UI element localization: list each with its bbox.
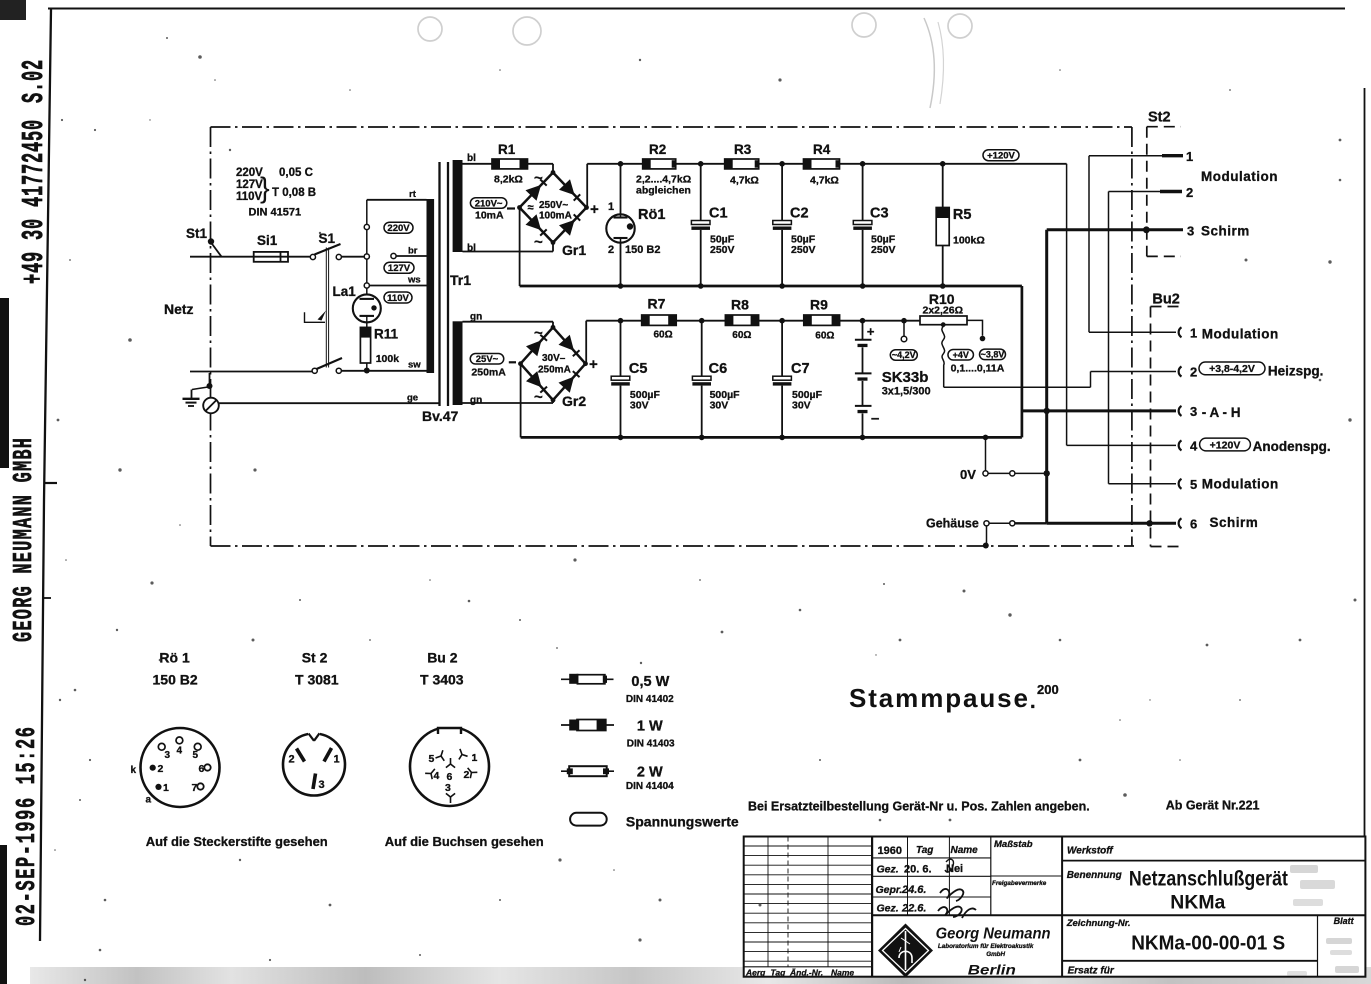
svg-text:30V: 30V	[630, 400, 649, 412]
svg-text:~: ~	[534, 325, 543, 342]
svg-text:Freigabevermerke: Freigabevermerke	[992, 880, 1047, 887]
svg-text:R4: R4	[813, 142, 831, 157]
svg-text:250mA: 250mA	[538, 365, 571, 376]
svg-text:C7: C7	[791, 361, 810, 377]
svg-text:St2: St2	[1148, 110, 1171, 126]
svg-text:0,05 C: 0,05 C	[279, 167, 313, 179]
svg-text:a: a	[146, 795, 152, 806]
svg-text:250V: 250V	[710, 244, 735, 256]
svg-text:2: 2	[464, 769, 470, 781]
svg-text:Blatt: Blatt	[1334, 916, 1355, 926]
svg-text:60Ω: 60Ω	[815, 331, 834, 342]
svg-text:rt: rt	[409, 189, 417, 200]
svg-text:25V~: 25V~	[476, 354, 499, 365]
svg-text:7: 7	[192, 782, 198, 794]
svg-text:100kΩ: 100kΩ	[953, 235, 985, 247]
svg-text:30V: 30V	[710, 400, 729, 412]
svg-text:La1: La1	[333, 284, 357, 299]
svg-text:- A - H: - A - H	[1202, 405, 1241, 420]
svg-text:Schirm: Schirm	[1210, 515, 1259, 530]
svg-text:3: 3	[319, 779, 325, 791]
svg-text:+: +	[867, 324, 875, 339]
svg-text:Tr1: Tr1	[450, 272, 471, 288]
svg-text:GEORG NEUMANN GMBH: GEORG NEUMANN GMBH	[8, 437, 39, 642]
svg-text:2: 2	[1186, 185, 1193, 200]
svg-text:~: ~	[534, 170, 543, 187]
svg-text:R5: R5	[953, 207, 972, 223]
svg-text:.: .	[1030, 691, 1036, 713]
svg-text:~: ~	[534, 234, 543, 251]
svg-text:Werkstoff: Werkstoff	[1067, 846, 1114, 857]
svg-text:1960: 1960	[878, 845, 902, 857]
svg-text:Zeichnung-Nr.: Zeichnung-Nr.	[1066, 918, 1131, 929]
svg-text:C5: C5	[629, 361, 648, 377]
svg-text:Modulation: Modulation	[1202, 327, 1279, 342]
svg-text:Si1: Si1	[257, 233, 278, 248]
svg-text:110V: 110V	[236, 191, 263, 203]
svg-text:Gr1: Gr1	[562, 242, 586, 258]
svg-text:St1: St1	[186, 226, 208, 241]
svg-text:Schirm: Schirm	[1201, 224, 1250, 239]
svg-text:Änd.-Nr.: Änd.-Nr.	[789, 968, 823, 978]
svg-text:Bv.47: Bv.47	[422, 408, 459, 424]
svg-text:Modulation: Modulation	[1201, 169, 1278, 184]
svg-text:R9: R9	[810, 297, 828, 313]
svg-text:6: 6	[199, 763, 205, 775]
svg-text:+3,8-4,2V: +3,8-4,2V	[1209, 363, 1255, 375]
svg-text:1: 1	[1186, 149, 1193, 164]
svg-text:~3,8V: ~3,8V	[981, 350, 1005, 360]
svg-text:C2: C2	[790, 206, 809, 222]
svg-text:6: 6	[1190, 517, 1197, 532]
svg-text:Anodenspg.: Anodenspg.	[1253, 439, 1331, 454]
svg-text:R8: R8	[731, 297, 749, 313]
svg-text:4,7kΩ: 4,7kΩ	[810, 175, 839, 187]
svg-text:2: 2	[1190, 365, 1197, 380]
svg-text:60Ω: 60Ω	[654, 330, 673, 341]
svg-text:+: +	[590, 201, 599, 218]
svg-text:200: 200	[1037, 682, 1059, 697]
svg-text:2 W: 2 W	[637, 765, 663, 781]
svg-text:Netz: Netz	[164, 301, 194, 317]
svg-text:DIN 41403: DIN 41403	[627, 739, 675, 750]
svg-text:30V–: 30V–	[542, 353, 566, 364]
svg-text:+120V: +120V	[987, 151, 1015, 162]
svg-text:Gr2: Gr2	[562, 393, 586, 409]
svg-text:Spannungswerte: Spannungswerte	[626, 814, 739, 830]
svg-text:4,7kΩ: 4,7kΩ	[730, 175, 759, 187]
svg-text:gn: gn	[470, 395, 482, 406]
svg-text:GmbH: GmbH	[986, 951, 1005, 958]
svg-text:02-SEP-1996 15:26: 02-SEP-1996 15:26	[11, 725, 42, 926]
svg-text:Georg Neumann: Georg Neumann	[936, 926, 1051, 943]
svg-text:T 3081: T 3081	[295, 672, 339, 688]
svg-text:Heizspg.: Heizspg.	[1268, 364, 1324, 379]
svg-text:100mA: 100mA	[539, 211, 572, 222]
svg-text:Gehäuse: Gehäuse	[926, 517, 979, 531]
svg-text:Auf die Steckerstifte geseh: Auf die Steckerstifte gesehen	[146, 834, 328, 849]
svg-text:Auf die Buchsen gesehen: Auf die Buchsen gesehen	[385, 834, 544, 849]
svg-text:1: 1	[608, 201, 614, 213]
svg-text:2x2,26Ω: 2x2,26Ω	[923, 305, 964, 317]
svg-text:≈: ≈	[528, 202, 534, 214]
svg-text:T 3403: T 3403	[420, 672, 464, 688]
svg-text:1 W: 1 W	[637, 719, 663, 735]
svg-text:}: }	[260, 173, 270, 205]
svg-text:8,2kΩ: 8,2kΩ	[494, 174, 523, 186]
svg-text:–: –	[871, 410, 879, 427]
svg-text:60Ω: 60Ω	[732, 330, 751, 341]
svg-text:Aerg: Aerg	[745, 968, 766, 978]
svg-text:Tag: Tag	[771, 968, 787, 978]
svg-text:Gez.: Gez.	[877, 903, 899, 915]
svg-text:4: 4	[1190, 439, 1198, 454]
svg-text:210V~: 210V~	[475, 198, 503, 209]
svg-text:St 2: St 2	[302, 650, 328, 666]
svg-text:150 B2: 150 B2	[153, 672, 198, 688]
svg-text:+120V: +120V	[1210, 439, 1241, 451]
svg-text:1: 1	[1190, 326, 1197, 341]
svg-text:R2: R2	[649, 142, 666, 157]
svg-text:Ersatz für: Ersatz für	[1068, 966, 1115, 977]
svg-text:1: 1	[163, 782, 169, 794]
svg-text:Rö 1: Rö 1	[159, 650, 190, 666]
svg-text:Benennung: Benennung	[1067, 870, 1122, 881]
svg-text:2: 2	[608, 244, 614, 256]
svg-text:R11: R11	[374, 327, 399, 342]
svg-text:110V: 110V	[387, 293, 409, 304]
svg-text:Bu 2: Bu 2	[427, 650, 458, 666]
svg-text:150 B2: 150 B2	[625, 244, 660, 256]
svg-text:Nei: Nei	[946, 863, 963, 875]
svg-text:DIN 41404: DIN 41404	[626, 781, 674, 792]
svg-text:R1: R1	[498, 142, 516, 157]
svg-text:250V: 250V	[871, 244, 896, 256]
svg-text:DIN 41402: DIN 41402	[626, 694, 674, 705]
svg-text:0,5 W: 0,5 W	[631, 674, 669, 690]
svg-text:bl: bl	[467, 153, 476, 164]
svg-text:10mA: 10mA	[475, 210, 504, 222]
svg-text:T 0,08 B: T 0,08 B	[272, 187, 316, 199]
svg-text:2: 2	[158, 763, 164, 775]
svg-text:5: 5	[429, 753, 435, 765]
svg-text:22.6.: 22.6.	[901, 903, 926, 915]
svg-text:127V: 127V	[388, 263, 411, 274]
svg-text:Name: Name	[951, 845, 979, 856]
svg-text:30V: 30V	[792, 400, 811, 412]
svg-text:250V: 250V	[791, 244, 816, 256]
svg-text:220V: 220V	[387, 223, 410, 234]
svg-text:ws: ws	[407, 275, 421, 286]
svg-text:Gez.: Gez.	[877, 864, 899, 876]
svg-text:ge: ge	[407, 393, 418, 404]
svg-text:3: 3	[445, 782, 451, 794]
svg-text:3: 3	[1187, 224, 1194, 239]
svg-text:Stammpause: Stammpause	[849, 683, 1028, 713]
svg-text:R3: R3	[734, 142, 752, 157]
svg-text:+4V: +4V	[953, 350, 969, 360]
svg-text:4: 4	[434, 770, 440, 782]
svg-text:Netzanschlußgerät: Netzanschlußgerät	[1129, 868, 1288, 891]
svg-text:DIN 41571: DIN 41571	[249, 207, 302, 219]
svg-text:Tag: Tag	[916, 845, 933, 856]
svg-text:Rö1: Rö1	[638, 207, 665, 223]
svg-text:R7: R7	[648, 296, 666, 312]
svg-text:SK33b: SK33b	[882, 369, 929, 386]
svg-text:5: 5	[1190, 477, 1197, 492]
svg-text:+: +	[589, 356, 598, 373]
svg-text:C3: C3	[870, 206, 889, 222]
svg-text:Bu2: Bu2	[1152, 292, 1179, 308]
svg-text:Laboratorium für Elektroakusti: Laboratorium für Elektroakustik	[938, 943, 1034, 950]
svg-text:3: 3	[165, 750, 171, 761]
svg-text:k: k	[131, 765, 137, 776]
svg-text:+49 30 41772450: +49 30 41772450	[17, 119, 52, 284]
svg-text:20. 6.: 20. 6.	[904, 864, 932, 876]
svg-text:abgleichen: abgleichen	[636, 185, 691, 197]
svg-text:Berlin: Berlin	[968, 963, 1016, 978]
svg-text:NKMa-00-00-01 S: NKMa-00-00-01 S	[1131, 933, 1285, 955]
svg-text:Ab Gerät Nr.221: Ab Gerät Nr.221	[1166, 799, 1260, 813]
svg-text:100k: 100k	[376, 353, 400, 365]
svg-text:3x1,5/300: 3x1,5/300	[882, 386, 931, 398]
svg-text:4: 4	[177, 746, 183, 757]
svg-text:1: 1	[334, 754, 340, 766]
svg-text:br: br	[408, 246, 418, 257]
svg-text:S.02: S.02	[17, 59, 52, 103]
svg-text:5: 5	[193, 750, 199, 761]
svg-text:~4,2V: ~4,2V	[892, 350, 916, 360]
svg-text:Maßstab: Maßstab	[994, 839, 1033, 850]
svg-text:0,1....0,11A: 0,1....0,11A	[951, 363, 1005, 375]
svg-text:sw: sw	[408, 360, 421, 371]
svg-text:Bei Ersatzteilbestellung Ger: Bei Ersatzteilbestellung Gerät-Nr u. Pos…	[748, 800, 1090, 814]
svg-text:250mA: 250mA	[471, 367, 506, 379]
svg-text:0V: 0V	[960, 467, 976, 482]
svg-text:C6: C6	[709, 361, 728, 377]
svg-text:Name: Name	[831, 968, 854, 978]
svg-text:Gepr.: Gepr.	[876, 884, 903, 896]
svg-text:NKMa: NKMa	[1170, 893, 1225, 914]
svg-text:3: 3	[1190, 404, 1197, 419]
svg-text:C1: C1	[709, 206, 728, 222]
svg-text:24.6.: 24.6.	[901, 884, 926, 896]
svg-text:Modulation: Modulation	[1202, 477, 1279, 492]
svg-text:1: 1	[472, 752, 478, 764]
svg-text:2: 2	[289, 754, 295, 766]
svg-text:250V~: 250V~	[539, 200, 568, 211]
